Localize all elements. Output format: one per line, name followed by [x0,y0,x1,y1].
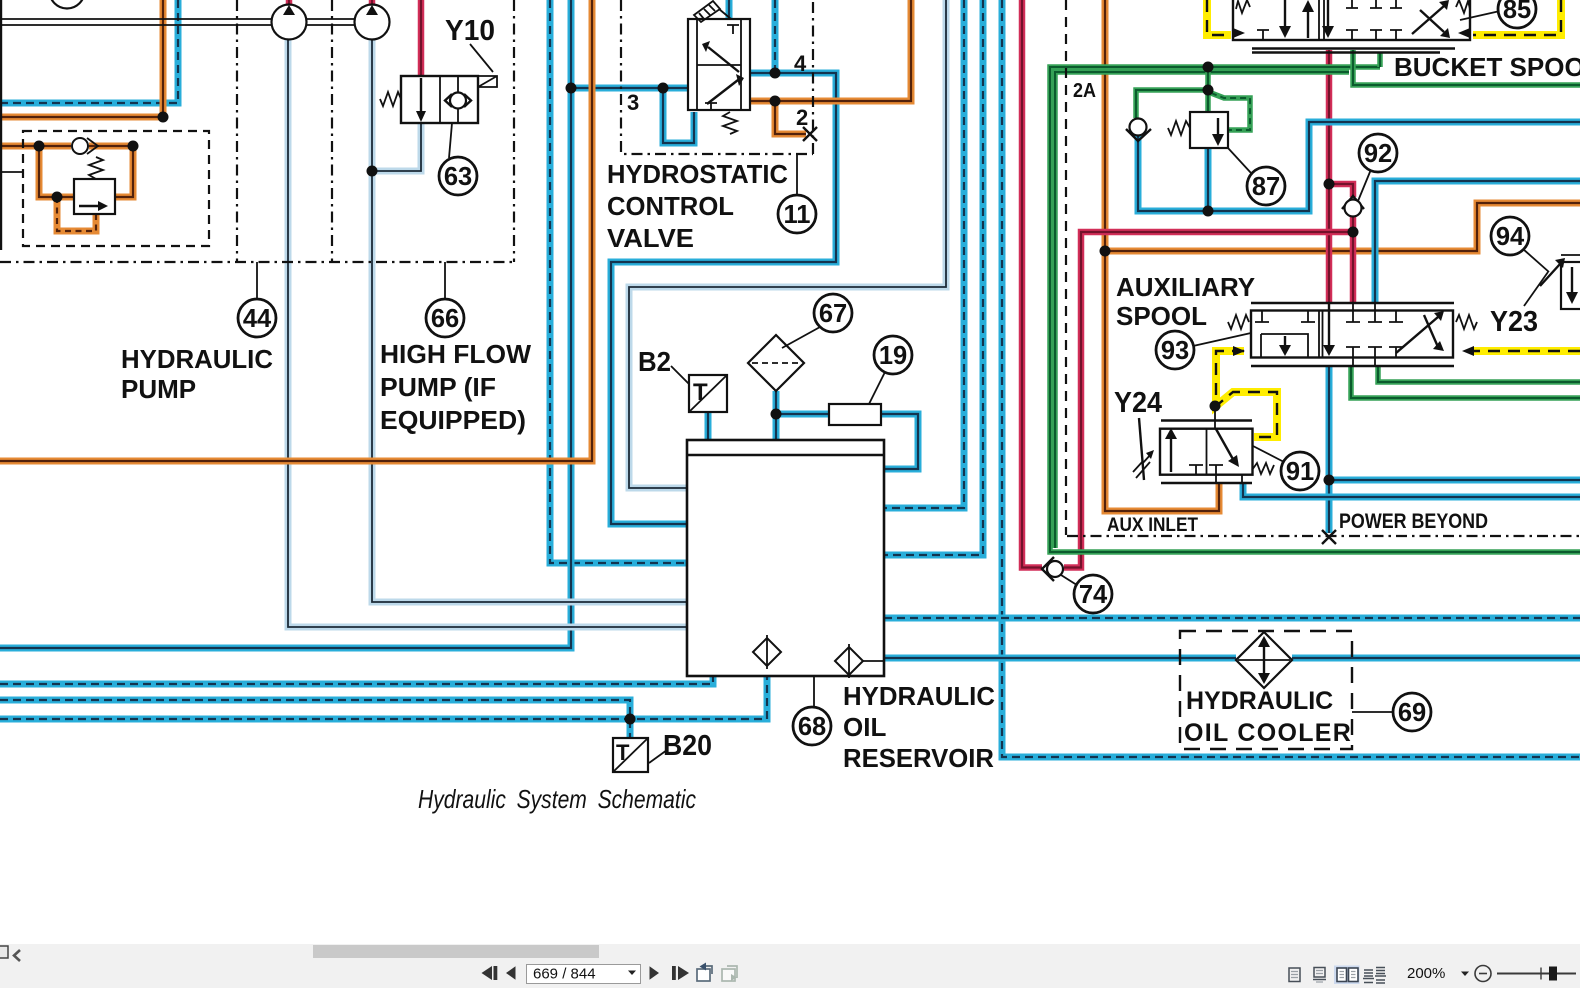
wire: orange relief loop left leg [39,146,74,197]
leader to circle 92 [1358,167,1372,201]
zoom out button [1475,966,1491,982]
wire: cyan dashed return from spool area y555 [884,0,983,555]
node: crimson junction y232 [1348,227,1359,238]
view icon two-page (selected) [1334,966,1360,985]
wire: orange charge line left [0,0,592,461]
nav prev icon [506,966,516,979]
wire: cyan dashed long return via cooler bottom [1002,0,1580,757]
svg-text:3: 3 [627,90,639,115]
node: relief loop right [128,141,139,152]
node: crimson tee to ball 92 [1324,179,1335,190]
node: orange aux junction [1100,246,1111,257]
callout circle 67 [814,294,852,332]
leader to circle 68 [813,676,815,707]
leader to circle 69 [1352,711,1394,713]
bucket valve bottom rails [1252,49,1455,53]
wire: cyan U under hydrostatic valve [663,88,694,143]
valve 63 body [401,76,478,123]
node: relief loop left [34,141,45,152]
nav last-page icon [672,966,689,980]
leader to circle 66 [444,262,446,300]
wire: green dashed pilot hook of valve 87 [1211,93,1250,130]
boundary: hydraulic oil cooler dash-dot box [1180,631,1352,749]
svg-text:AUX INLET: AUX INLET [1107,515,1198,536]
wire: cyan B2 sensor stub [705,412,712,440]
wire: cyan solenoid-valve pilot net port 3 trunk [0,0,571,648]
callout circle 63 [439,157,477,195]
svg-text:11: 11 [784,201,811,229]
callout circle 85 [1498,0,1536,28]
leader to circle 87 [1228,148,1251,173]
svg-text:OIL COOLER: OIL COOLER [1184,719,1352,747]
hydrostatic control valve body [688,19,750,110]
relief valve 44 spring [89,157,103,179]
collapse chevron [14,950,20,961]
svg-text:Y23: Y23 [1490,306,1538,338]
wire: green double trunk 2A [1050,67,1580,552]
callout circle 66 [426,299,464,337]
wire: cyan dashed reservoir return B with B20 stub [0,700,630,738]
pressure reducing valve 87 body [1190,112,1228,148]
plugged port X at port 2 [803,127,817,141]
wire: crimson bucket-to-aux spool line [1326,50,1333,302]
svg-text:VALVE: VALVE [607,223,694,253]
leader to circle 91 [1253,446,1284,462]
page number box [527,965,641,984]
svg-text:69: 69 [1398,699,1426,727]
svg-text:OIL: OIL [843,712,886,742]
wire: cyan cooler line y658 [884,655,1580,662]
wire: black stub into relief box [0,171,23,173]
wire: pale blue pump1 drain to reservoir [288,40,687,627]
view icon two-page continuous [1363,968,1386,984]
node: B20 tee [625,714,636,725]
leader to circle 63 [449,123,452,158]
wire: crimson vertical from top to check 74 [1022,0,1042,568]
previous view icon [697,963,712,982]
wire: cyan dashed reservoir return A [0,677,713,684]
wire: cyan dashed return line upper-left [0,0,178,103]
svg-text:94: 94 [1496,223,1525,251]
leader to circle 44 [256,262,258,300]
node: port3 trunk junction [566,83,577,94]
relief valve 44 body [74,179,115,214]
wire: cyan check-87 loop [1138,122,1580,211]
leader to circle 94 [1523,249,1549,272]
B20 temperature sensor box [613,738,648,772]
wire: orange relief drain U dashed [57,197,96,231]
boundary: dash-dot horizontal pump enclosure bottom [0,261,514,263]
svg-text:67: 67 [819,300,847,328]
wire: cyan dashed vertical from top to reservoir left wall [550,0,687,563]
svg-text:RESERVOIR: RESERVOIR [843,743,994,773]
wire: cyan port-4 net to reservoir [611,73,836,524]
wire: orange aux inlet feed down to Y24 [1105,0,1219,511]
wire: crimson below ball to aux valve [1350,216,1357,302]
wire: crimson aux pressure loop [1064,232,1353,568]
wire: cyan dashed pilot branch above port 4 [772,0,779,73]
wire: yellow pilot bucket valve right [1473,0,1561,35]
svg-text:PUMP (IF: PUMP (IF [380,372,496,402]
next view icon (disabled) [722,966,737,981]
svg-text:SPOOL: SPOOL [1116,301,1207,331]
callout circle 68 [793,707,831,745]
wire: cyan y480 line right [1329,477,1580,484]
wire: orange port-2 line to top right [750,0,911,101]
wire: green bucket valve port stubs [1353,50,1580,85]
view icon single page [1289,968,1300,982]
check ball 92 [1342,196,1364,217]
wire: yellow pilot aux valve right [1473,347,1580,355]
svg-text:T: T [616,740,630,765]
svg-text:92: 92 [1364,140,1392,168]
Y24 solenoid hatch [1133,418,1154,480]
callout circle 94 [1491,217,1529,255]
zoom slider [1497,973,1576,975]
wire: green aux valve work lines [1351,366,1580,398]
plugged port X power beyond [1322,530,1336,544]
wire: orange plugged stub port 2 [775,101,806,134]
callout circle 87 [1247,167,1285,205]
callout circle 19 [874,336,912,374]
node: yellow pilot junction Y24 [1210,401,1221,412]
wire: yellow pilot bucket valve left [1207,0,1231,35]
svg-text:74: 74 [1079,581,1108,609]
node: orange corner top-left [158,112,169,123]
wire: cyan power beyond line [1326,366,1333,533]
nav next icon [650,966,660,979]
boundary: dash-dot vertical pump box 3 [513,0,515,262]
corner box bottom-left [0,946,8,958]
leader to circle 67 [782,327,820,348]
boundary: dash-dot vertical pump box 1 [236,0,238,262]
svg-text:Y10: Y10 [445,15,495,47]
callout circle 44 [238,299,276,337]
orifice 19 [829,404,881,425]
wire: green inner parallel line [1055,72,1349,548]
leader from B2 label [671,366,689,384]
svg-text:B2: B2 [638,346,671,377]
shaft: double drive line [0,19,390,25]
callout circle 74 [1074,575,1112,613]
wire: crimson supply into valve 63 [418,0,425,78]
wire: cyan dashed tank header y618 [884,615,1580,622]
hydrostatic valve spring [723,112,737,134]
leader to circle 74 [1061,575,1080,587]
wire: left page edge line [0,0,2,250]
svg-text:BUCKET SPOOL: BUCKET SPOOL [1394,52,1580,82]
svg-text:PUMP: PUMP [121,374,196,404]
svg-text:44: 44 [243,305,272,333]
pump: partial circle at top-left corner [50,0,85,9]
svg-text:91: 91 [1286,458,1314,486]
wire: cyan filter to orifice 19 into reservoir [776,391,918,469]
svg-text:EQUIPPED): EQUIPPED) [380,405,526,435]
boundary: dashed relief-valve sub-box [23,131,209,246]
valve 63 Y10 tab [478,76,497,87]
svg-text:4: 4 [794,51,807,76]
wire: orange top-left line [0,0,163,117]
svg-text:19: 19 [879,342,907,370]
nav first-page icon [482,966,498,980]
boundary: 2A dashed vertical [1065,0,1067,535]
svg-text:669 / 844: 669 / 844 [533,966,596,983]
wire: crimson stubs above pumps [289,0,372,6]
callout circle 91 [1281,452,1319,490]
node: relief drain tee [52,192,63,203]
cooler diamond [1236,632,1292,688]
boundary: hydrostatic valve dash-dot box [621,0,813,154]
leader to Y23 label [1524,272,1548,306]
bucket spool valve body [1233,0,1470,40]
svg-text:2A: 2A [1073,80,1096,102]
wire: cyan port-3 branch to hydrostatic valve [571,85,688,92]
wire: yellow pilot Y24 loop [1216,351,1277,437]
svg-text:CONTROL: CONTROL [607,191,734,221]
wire: orange relief loop right leg [115,146,133,197]
pump P1 circle [272,5,307,40]
svg-text:68: 68 [798,713,826,741]
leader to Y10 label [470,44,493,72]
svg-text:HYDRAULIC: HYDRAULIC [843,681,995,711]
wire: cyan line y181 to aux valve [1375,181,1580,302]
wire: cyan dashed suction line to strainer [0,665,767,719]
callout circle 69 [1393,693,1431,731]
wire: orange relief loop top line [0,143,133,150]
pump P2 circle [355,5,390,40]
node: valve63 tank junction [367,166,378,177]
boundary: dash-dot vertical pump box 2 [331,0,333,262]
check valve above cyan loop [1126,119,1151,142]
node: cyan tee under valve 87 [1203,206,1214,217]
svg-text:HYDRAULIC: HYDRAULIC [121,344,273,374]
wire: cyan stub valve 87 bottom [1205,148,1212,211]
svg-text:HIGH FLOW: HIGH FLOW [380,339,531,369]
valve 63 spring [380,92,401,106]
svg-text:Hydraulic System Schematic: Hydraulic System Schematic [418,784,696,814]
reservoir tank [687,440,884,676]
svg-text:Y24: Y24 [1114,387,1162,419]
wire: pale blue pump2 drain to reservoir [372,40,687,602]
leader to circle 93 [1193,333,1251,346]
svg-text:87: 87 [1252,173,1280,201]
svg-text:93: 93 [1161,337,1189,365]
view icon continuous [1313,968,1326,983]
svg-text:HYDROSTATIC: HYDROSTATIC [607,159,788,189]
svg-text:T: T [693,379,708,406]
hydrostatic valve lever/solenoid hatched tab [694,1,731,22]
strainer diamond right [835,644,884,678]
Y24 valve spring [1252,463,1274,474]
strainer diamond left [753,635,781,669]
svg-text:85: 85 [1503,0,1531,24]
wire: pale blue case drain return from top right [629,0,946,488]
auxiliary spool valve body [1228,303,1477,366]
wire: green branch to reducing valve 87 [1136,67,1208,118]
callout circle 93 [1156,331,1194,369]
node: port4 junction [770,68,781,79]
wire: crimson stub to check ball 92 [1329,184,1353,197]
node: green tee at 1208 [1203,62,1214,73]
wire: cyan stub into hydrostatic valve top [726,0,733,19]
callout circle 11 [778,195,816,233]
node: cyan power beyond junction [1324,475,1335,486]
wire: cyan y497 line right [1243,484,1580,497]
node: filter tee [771,409,782,420]
svg-text:B20: B20 [663,730,712,762]
wire: pale blue valve-63 tank line [372,123,421,171]
callout circle 92 [1359,134,1397,172]
wire: cyan dashed return from spool area y508 [884,0,964,508]
leader from B20 label [649,750,667,763]
svg-text:POWER BEYOND: POWER BEYOND [1339,509,1488,533]
svg-text:200%: 200% [1407,965,1445,982]
svg-text:HYDRAULIC: HYDRAULIC [1186,687,1333,715]
svg-text:2: 2 [796,105,808,130]
check valve in relief loop [72,138,98,154]
svg-text:66: 66 [431,305,459,333]
node: green tee lower [1203,85,1214,96]
flow control valve 94 at right edge [1540,255,1580,309]
leader to circle 85 [1460,11,1500,20]
leader to circle 19 [869,370,886,404]
svg-text:63: 63 [444,163,472,191]
B2 temperature sensor box [689,375,727,412]
black pilot stub from yellow dot to Y24 [1214,406,1216,429]
node: port2 junction [770,96,781,107]
boundary: aux inlet / power beyond dash-dot line [1067,535,1580,537]
wire: orange branch right to valve 94 [1105,203,1580,251]
node: port3 U junction [658,83,669,94]
check ball 74 [1042,557,1063,581]
svg-text:AUXILIARY: AUXILIARY [1116,272,1255,302]
valve 87 spring [1168,121,1190,135]
leader to circle 11 [796,154,798,196]
filter 67 diamond [748,335,804,391]
Y24 solenoid valve body [1160,421,1253,485]
